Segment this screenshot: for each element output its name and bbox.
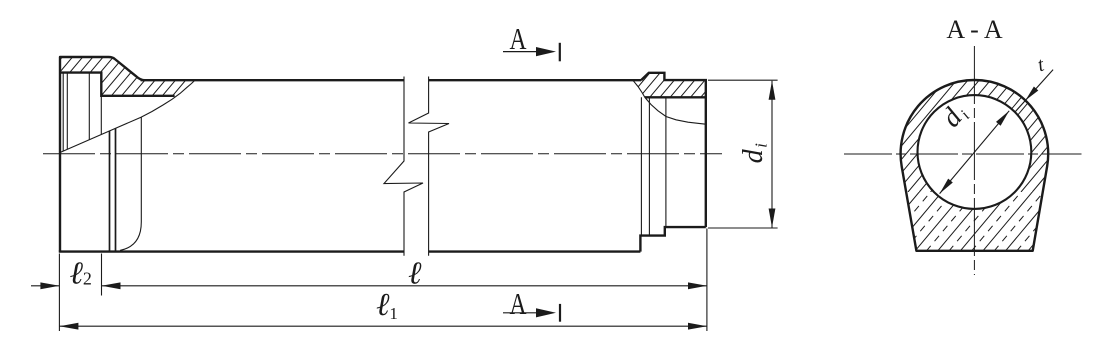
bore interior blank [918,95,1032,209]
dimension l line with arrows [102,285,708,287]
left coupling internal shoulder outline [60,73,175,96]
left coupling outer profile: face, cap top, chamfer [60,57,145,252]
coupling right face with bottom fillet [120,117,141,250]
right end projection line 3 [665,97,667,227]
section bore circle [918,95,1032,209]
dimension di line with arrows [771,81,773,228]
extension line l2 right / l left [101,254,103,296]
thread line 2 [66,73,68,150]
svg-text:ℓ: ℓ [408,255,422,291]
right hatch bottom line [645,96,706,98]
di diagonal dimension inside bore [940,111,1010,194]
section arrow top: arrowhead [536,47,556,56]
extension line left l1/l2 [58,254,60,332]
extension line right end [706,229,708,332]
pipe top outline left segment [141,79,404,81]
thread end line [88,73,90,140]
hatch right end section [551,66,748,130]
section outer outline [901,80,1049,251]
dimension l2: outside arrow tail left [31,285,59,287]
svg-text:A: A [510,21,527,56]
right internal upset transition curve [633,80,706,124]
right end projection line 1 [640,97,642,235]
section A-A hatch solid lower (wide) [777,186,1102,254]
section vertical centerline [973,46,975,275]
coupling bore step line [100,96,102,135]
section arrow bottom: arrowhead [536,308,556,317]
svg-text:A: A [510,286,527,321]
centerline of pipe axis [43,153,722,155]
dimension l1 line with arrows [59,325,707,327]
break line left with zigzag [384,77,423,256]
thread line 1 [62,73,64,152]
section arrow bottom: tick [559,304,561,322]
right end projection line 2 [648,97,650,235]
section A-A hatch solid upper [777,40,1102,254]
pipe end edge line 1 [109,131,111,251]
pipe top outline right segment [429,79,641,81]
svg-text:A - A: A - A [946,15,1003,44]
section arrow top: line [503,51,552,53]
dimension di extension top [708,79,778,81]
pipe end edge line 2 [115,128,117,250]
dimension di extension bottom [708,227,778,229]
section arrow bottom: line [503,312,552,314]
section horizontal centerline [844,153,1082,155]
right end bottom steps [640,227,705,252]
right end outer profile: bump, top, face [641,73,706,227]
break line right with zigzag [409,77,450,256]
left internal upset transition curve [60,81,195,153]
section arrow top: tick [559,43,561,62]
pipe bottom outline left segment [59,250,404,252]
section A-A hatch dashed lower [788,186,1102,254]
hatch left coupling section [0,50,252,160]
t leader line [1015,70,1053,113]
pipe bottom outline right segment [429,250,641,252]
